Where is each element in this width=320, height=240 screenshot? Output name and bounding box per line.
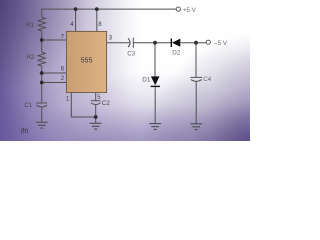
- svg-text:C1: C1: [24, 102, 32, 109]
- ground under C4: [190, 124, 202, 130]
- terminal +5 V: [176, 7, 196, 14]
- wire pin 8: [96, 9, 98, 32]
- wire pin 2: [42, 82, 67, 84]
- wire R1 to node7: [41, 31, 43, 52]
- ground under D1: [149, 124, 161, 130]
- resistor R2: [38, 52, 45, 66]
- wire C3 to D2: [133, 42, 171, 44]
- node pin6: [40, 71, 44, 75]
- IC 555 timer U1: [66, 31, 106, 92]
- node pin8 on rail: [95, 7, 99, 11]
- node pin2: [40, 81, 44, 85]
- svg-text:D1: D1: [142, 76, 150, 83]
- svg-text:C2: C2: [102, 100, 110, 107]
- capacitor C1: [36, 103, 47, 107]
- wire pin 3 to C3: [107, 42, 130, 44]
- wire top rail +5V: [42, 9, 176, 17]
- svg-text:555: 555: [81, 57, 93, 64]
- wire D2 to -5V: [180, 42, 206, 44]
- svg-text:R1: R1: [26, 22, 34, 29]
- ground under pins 1,5: [90, 123, 102, 129]
- node pin1/C2 ground: [94, 115, 98, 119]
- svg-text:D2: D2: [172, 49, 180, 56]
- wire D1 branch: [154, 43, 156, 77]
- svg-text:R2: R2: [27, 54, 35, 61]
- wire pin 4: [75, 9, 77, 32]
- svg-text:(b): (b): [21, 128, 28, 134]
- svg-text:C3: C3: [127, 50, 135, 57]
- wire pin 1 to ground node: [71, 93, 95, 118]
- ground under C1: [36, 122, 48, 128]
- capacitor C3: [128, 38, 133, 48]
- diode D1: [151, 76, 160, 86]
- svg-text:C4: C4: [203, 76, 211, 83]
- wire pin 5: [95, 93, 97, 101]
- wire C4 branch: [195, 43, 197, 78]
- wire R2 down to C1: [41, 66, 43, 103]
- wire pin 6: [42, 72, 67, 74]
- svg-text:–5 V: –5 V: [214, 40, 228, 47]
- wire C4 to ground: [195, 81, 197, 123]
- terminal -5 V: [206, 40, 228, 47]
- node C3/D1: [153, 41, 157, 45]
- capacitor C4: [190, 77, 202, 81]
- node pin4 on rail: [74, 7, 78, 11]
- node pin7 R1/R2: [40, 38, 44, 42]
- junction node dots: [40, 7, 198, 119]
- wire D1 to ground: [154, 86, 156, 123]
- wire C1 to ground: [41, 107, 43, 122]
- background gradient: [0, 0, 250, 141]
- wire C2 to ground node: [95, 105, 97, 123]
- capacitor C2: [91, 101, 101, 105]
- resistor R1: [38, 17, 45, 31]
- diode D2: [171, 39, 180, 48]
- svg-text:+5 V: +5 V: [183, 7, 197, 14]
- node D2/C4: [194, 41, 198, 45]
- wire pin 7: [42, 39, 67, 41]
